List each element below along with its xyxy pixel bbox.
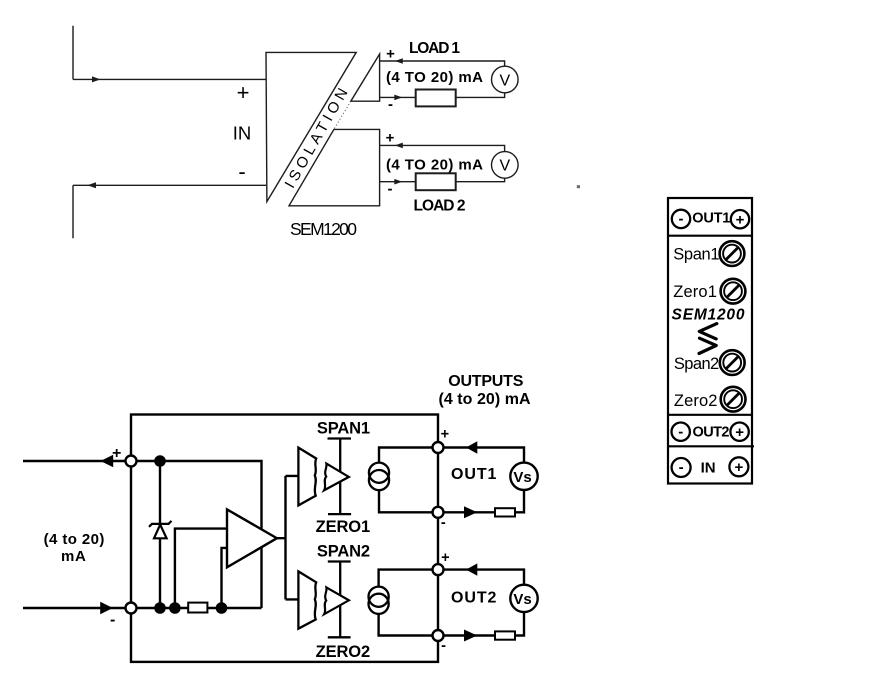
wire out1 minus external (438, 490, 524, 512)
screw Zero2 (721, 387, 746, 412)
arrow schematic input minus (100, 602, 113, 615)
panel terminal IN plus (729, 457, 748, 476)
arrow load1 minus right (394, 95, 402, 101)
wire zener branch (159, 461, 161, 608)
svg-text:+: + (735, 459, 744, 476)
svg-text:OUT2: OUT2 (451, 589, 496, 606)
op-amp U1 (227, 509, 277, 567)
svg-text:-: - (238, 159, 245, 184)
wire load1 minus with resistor gap (380, 93, 505, 98)
current source CS2 (369, 587, 389, 614)
svg-text:SPAN2: SPAN2 (317, 543, 370, 561)
svg-text:(4 TO 20) mA: (4 TO 20) mA (386, 69, 483, 86)
wire bottom rail (131, 607, 262, 609)
svg-text:OUT1: OUT1 (692, 211, 730, 227)
terminal out1 plus (433, 442, 444, 453)
panel isolation zigzag (699, 324, 717, 339)
svg-text:V: V (499, 158, 510, 175)
wire input minus (23, 607, 131, 609)
svg-text:+: + (237, 80, 250, 105)
wire cs1 to terminals (379, 448, 438, 513)
outer box (131, 415, 438, 662)
arrow out1 minus (464, 506, 477, 518)
svg-text:(4 to 20): (4 to 20) (44, 531, 105, 548)
svg-text:SEM1200: SEM1200 (290, 219, 357, 239)
terminal out2 plus (433, 564, 444, 575)
quad channel2 output section (289, 129, 380, 205)
wire cs2 to terminals (379, 570, 438, 636)
wire input minus horizontal (73, 184, 266, 186)
svg-text:IN: IN (701, 460, 716, 477)
arrow load2 minus right (394, 179, 402, 185)
current source CS1 (369, 463, 389, 491)
isolation amp A2 buffer triangle (324, 587, 349, 614)
svg-text:-: - (110, 612, 115, 629)
svg-text:OUT1: OUT1 (451, 466, 496, 483)
load resistor R load1 (416, 90, 456, 107)
wire input plus (23, 460, 131, 462)
screw Span2 (720, 350, 745, 375)
svg-text:V: V (499, 72, 510, 89)
wire load2 minus with resistor gap (380, 178, 505, 182)
resistor R out2 (495, 631, 515, 639)
junction dot input2 (216, 602, 228, 614)
terminal input plus (126, 456, 137, 467)
svg-text:Zero2: Zero2 (674, 392, 718, 410)
wire opamp output and feed (277, 476, 299, 600)
svg-text:LOAD 1: LOAD 1 (409, 40, 460, 57)
arrow out1 plus (466, 441, 477, 453)
svg-text:-: - (441, 515, 446, 531)
svg-text:+: + (736, 211, 745, 228)
svg-text:+: + (112, 445, 121, 462)
svg-text:ZERO1: ZERO1 (316, 518, 371, 536)
wire load2 plus (380, 145, 505, 151)
svg-text:OUTPUTS: OUTPUTS (448, 373, 524, 390)
svg-text:Vs: Vs (513, 469, 531, 486)
panel terminal OUT1 minus (672, 210, 690, 228)
isolation amp A1 buffer triangle (324, 464, 349, 491)
svg-text:-: - (679, 459, 684, 476)
junction dot input1 (169, 602, 181, 614)
svg-text:(4 to 20) mA: (4 to 20) mA (438, 391, 531, 408)
wire opamp input1 (175, 529, 227, 608)
isolation block left triangle (266, 52, 356, 201)
svg-text:Zero1: Zero1 (673, 283, 717, 301)
wire out1 plus external (438, 448, 524, 463)
junction dot zener bottom (154, 602, 166, 614)
svg-text:-: - (441, 638, 446, 654)
svg-text:+: + (441, 427, 449, 443)
svg-text:-: - (388, 96, 393, 113)
terminal input minus (126, 603, 137, 614)
wire input bottom vertical (72, 185, 74, 238)
resistor R out1 (495, 508, 515, 516)
svg-text:+: + (386, 130, 395, 147)
junction dot top rail (154, 455, 166, 467)
isolation amp A2 body (298, 571, 316, 628)
terminal out1 minus (433, 507, 444, 518)
stray speck (577, 185, 580, 188)
svg-text:Span1: Span1 (673, 246, 719, 264)
wire opamp input2 (222, 548, 228, 608)
svg-text:LOAD 2: LOAD 2 (414, 198, 466, 215)
panel line above OUT2 row (668, 414, 752, 416)
SPAN2 ZERO2 potentiometer (328, 562, 351, 638)
svg-text:SEM1200: SEM1200 (672, 307, 745, 324)
resistor R feedback (188, 603, 207, 613)
triangle channel1 output section (351, 54, 380, 101)
arrow load1 plus left (395, 58, 403, 64)
svg-text:(4 TO 20) mA: (4 TO 20) mA (386, 156, 483, 173)
voltmeter V2 circle (492, 152, 519, 179)
svg-text:Span2: Span2 (674, 355, 719, 373)
svg-text:Vs: Vs (513, 591, 531, 608)
load resistor R load2 (416, 173, 456, 190)
isolation amp A1 body (298, 448, 316, 506)
svg-text:+: + (441, 550, 449, 566)
arrow input plus right (92, 76, 101, 82)
wire out2 plus external (438, 570, 524, 585)
voltmeter V1 circle (492, 66, 519, 93)
voltage source Vs2 (510, 585, 537, 612)
arrow out2 plus (466, 563, 477, 575)
svg-text:mA: mA (61, 548, 86, 565)
svg-text:-: - (679, 211, 684, 228)
svg-text:-: - (678, 423, 683, 440)
panel line under OUT1 row (668, 235, 752, 237)
svg-text:IN: IN (233, 123, 252, 144)
wire input plus horizontal (73, 78, 266, 80)
screw Span1 (720, 241, 745, 266)
wire input top vertical (72, 26, 74, 80)
screw Zero1 (721, 279, 746, 304)
dotted isolation barrier gap (334, 101, 351, 129)
zener diode D1 (149, 521, 172, 538)
arrow input minus left (87, 182, 96, 188)
arrow out2 minus (464, 630, 477, 642)
svg-text:-: - (388, 181, 393, 198)
arrow schematic input plus (101, 455, 114, 468)
wire load1 plus (380, 61, 505, 66)
wire out2 minus external (438, 612, 524, 635)
SPAN1 ZERO1 potentiometer (328, 439, 352, 515)
panel terminal IN minus (672, 458, 691, 477)
panel terminal OUT2 plus (730, 423, 748, 441)
panel line under OUT2 row (668, 445, 754, 447)
svg-text:ZERO2: ZERO2 (316, 643, 371, 661)
svg-text:OUT2: OUT2 (693, 425, 730, 441)
terminal out2 minus (433, 630, 444, 641)
panel terminal OUT1 plus (731, 210, 749, 228)
arrow load2 plus left (395, 143, 403, 149)
panel outer box (668, 198, 752, 484)
panel terminal OUT2 minus (672, 423, 690, 441)
wire top rail to feedback (131, 461, 262, 608)
svg-text:+: + (735, 424, 744, 441)
svg-text:+: + (386, 46, 395, 63)
svg-text:SPAN1: SPAN1 (317, 420, 370, 438)
voltage source Vs1 (510, 463, 537, 490)
